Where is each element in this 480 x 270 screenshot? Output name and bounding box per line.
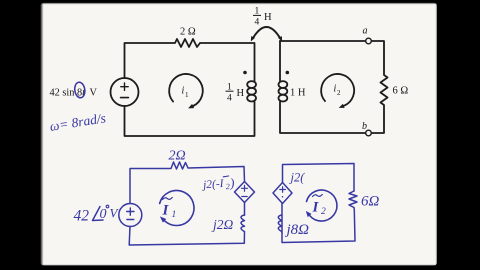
svg-text:j2(: j2(: [289, 171, 306, 185]
svg-text:H: H: [264, 12, 272, 23]
svg-text:1: 1: [185, 91, 189, 99]
svg-text:0: 0: [100, 207, 107, 222]
svg-text:H: H: [237, 88, 245, 99]
svg-text:2: 2: [337, 89, 341, 97]
svg-text:I: I: [162, 203, 170, 219]
svg-text:b: b: [362, 121, 367, 132]
svg-text:a: a: [363, 26, 368, 37]
svg-text:1: 1: [172, 210, 177, 220]
svg-text:6 Ω: 6 Ω: [393, 86, 409, 97]
svg-text:2: 2: [321, 207, 326, 217]
svg-text:4: 4: [227, 94, 232, 104]
svg-text:2 Ω: 2 Ω: [180, 27, 196, 38]
svg-text:I: I: [312, 200, 320, 216]
svg-text:4: 4: [255, 18, 260, 28]
svg-text:2Ω: 2Ω: [169, 149, 186, 164]
svg-text:42: 42: [74, 208, 90, 225]
svg-text:): ): [228, 175, 234, 190]
svg-text:j2Ω: j2Ω: [211, 217, 234, 232]
svg-text:j8Ω: j8Ω: [285, 222, 310, 238]
svg-text:j2(-I: j2(-I: [201, 178, 225, 192]
svg-text:6Ω: 6Ω: [361, 194, 380, 210]
svg-text:42 sin 8tV: 42 sin 8tV: [50, 88, 98, 99]
svg-text:1 H: 1 H: [290, 88, 306, 99]
